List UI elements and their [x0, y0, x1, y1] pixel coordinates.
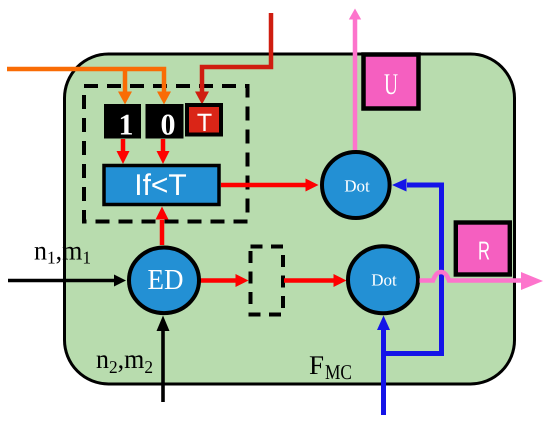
pink arrowhead (top output U) [349, 9, 361, 20]
orange arrowhead into box 0 [157, 92, 171, 105]
orange input line [7, 69, 164, 92]
black input wire n2,m2 into ED (from bottom) [161, 330, 165, 402]
dashed selection box around 1/0/T and If<T [84, 86, 248, 222]
box T (red) [187, 105, 221, 135]
black arrowhead into ED [114, 275, 126, 287]
U box [364, 55, 419, 109]
black arrowhead into ED bottom [157, 316, 170, 332]
svg-text:1: 1 [119, 109, 134, 142]
dark red arrowhead into box T [195, 92, 209, 105]
red wire ED to If<T (up) [160, 220, 165, 245]
blue wire from bottom into Dot2 [381, 329, 386, 415]
pink output arrow from Dot1 (up) [353, 19, 358, 150]
red arrowhead into If<T (from box0) [157, 151, 170, 164]
svg-text:U: U [384, 68, 398, 101]
pink arrowhead (right output R) [521, 272, 543, 290]
red wire box1 to If<T [121, 139, 126, 152]
blue arrowhead into Dot1 right [392, 179, 407, 192]
red arrowhead into If<T bottom [156, 207, 169, 220]
orange branch wire to box 1 [123, 69, 128, 92]
red wire If<T to Dot1 [221, 183, 306, 188]
If<T comparator box [104, 166, 219, 205]
svg-text:Dot: Dot [371, 271, 397, 290]
main rounded enclosure [65, 54, 515, 384]
svg-text:T: T [197, 109, 212, 137]
svg-text:0: 0 [161, 109, 176, 142]
svg-text:ED: ED [148, 264, 184, 296]
orange arrowhead into box 1 [118, 92, 132, 105]
svg-text:If<T: If<T [134, 169, 187, 202]
red wire bracket to Dot2 [284, 278, 334, 283]
ED circle [129, 247, 199, 313]
red arrowhead into Dot1 [306, 179, 319, 192]
pink output arrow from Dot2 (right, hops over blue wire) [420, 272, 523, 281]
red arrowhead into bracket [236, 274, 249, 287]
box 1 [104, 104, 141, 139]
blue arrowhead into Dot2 bottom [377, 316, 390, 331]
black input wire n1,m1 into ED [8, 279, 115, 283]
red wire ED to bracket [200, 278, 236, 283]
dark red input line to T [202, 13, 271, 92]
svg-text:F: F [309, 350, 324, 380]
R box [456, 223, 510, 275]
red arrowhead into Dot2 [334, 274, 347, 287]
box 0 [146, 104, 184, 139]
red arrowhead into If<T (from box1) [117, 151, 130, 164]
red wire box0 to If<T [161, 139, 166, 152]
svg-text:Dot: Dot [344, 177, 370, 196]
Dot1 circle [322, 152, 390, 218]
svg-text:R: R [478, 236, 490, 266]
Dot2 circle [348, 246, 418, 313]
dashed bracket box between ED and Dot2 [251, 247, 284, 315]
svg-text:MC: MC [325, 360, 352, 384]
blue branch wire to Dot1 [384, 185, 442, 354]
